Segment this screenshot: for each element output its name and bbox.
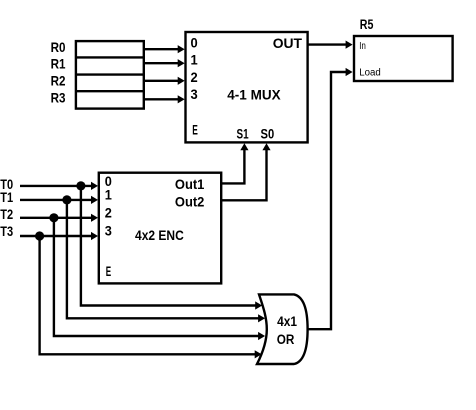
svg-text:E: E — [106, 264, 111, 279]
wire T2 tap to OR input 3 — [54, 218, 265, 340]
svg-text:1: 1 — [105, 188, 113, 203]
4-1 MUX U1 — [186, 32, 308, 142]
svg-text:4x1: 4x1 — [277, 314, 297, 329]
svg-text:1: 1 — [191, 53, 199, 68]
svg-text:OUT: OUT — [273, 35, 303, 51]
junction node on T2 — [49, 213, 58, 222]
svg-text:S0: S0 — [261, 126, 275, 141]
encoder 4x2 ENC — [99, 173, 221, 284]
svg-text:4x2 ENC: 4x2 ENC — [135, 227, 184, 243]
junction node on T1 — [62, 195, 71, 204]
svg-text:0: 0 — [191, 36, 198, 51]
wire ENC Out1 to MUX S1 — [221, 143, 248, 183]
svg-text:R1: R1 — [51, 56, 66, 72]
svg-text:OR: OR — [277, 332, 295, 347]
svg-text:R2: R2 — [51, 73, 66, 89]
svg-text:3: 3 — [191, 87, 199, 102]
wire T0 to ENC input 0 — [20, 182, 98, 190]
register R5 — [354, 36, 453, 81]
wire T2 to ENC input 2 — [20, 214, 98, 222]
svg-text:T2: T2 — [0, 207, 13, 222]
svg-text:R0: R0 — [51, 39, 66, 55]
wire R2 to MUX input 2 — [144, 77, 185, 85]
OR gate 4x1 — [257, 294, 308, 364]
register file stack R0-R3 — [76, 41, 144, 109]
junction node on T0 — [76, 181, 85, 190]
svg-text:In: In — [359, 41, 366, 52]
wire T1 to ENC input 1 — [20, 196, 98, 204]
svg-text:Out1: Out1 — [175, 177, 205, 192]
svg-text:3: 3 — [105, 223, 113, 238]
wire T3 to ENC input 3 — [20, 232, 98, 240]
wire MUX OUT to R5 In — [308, 41, 353, 49]
svg-text:E: E — [192, 123, 198, 138]
svg-text:4-1 MUX: 4-1 MUX — [227, 87, 281, 103]
wire T3 tap to OR input 4 — [40, 236, 262, 358]
wire T0 tap to OR input 1 — [81, 186, 262, 310]
svg-text:Out2: Out2 — [175, 195, 205, 210]
svg-text:T1: T1 — [0, 190, 13, 205]
wire R3 to MUX input 3 — [144, 95, 185, 103]
svg-text:Load: Load — [359, 68, 381, 79]
svg-text:R5: R5 — [360, 17, 374, 32]
svg-text:2: 2 — [191, 70, 198, 85]
svg-text:2: 2 — [105, 205, 112, 220]
svg-text:R3: R3 — [51, 90, 66, 106]
wire R1 to MUX input 1 — [144, 59, 185, 67]
wire R0 to MUX input 0 — [144, 45, 185, 53]
svg-text:T3: T3 — [0, 224, 13, 239]
svg-text:S1: S1 — [237, 126, 249, 141]
wire ENC Out2 to MUX S0 — [221, 143, 270, 200]
wire OR output to R5 Load — [308, 68, 353, 329]
wire T1 tap to OR input 2 — [67, 200, 265, 323]
junction node on T3 — [35, 231, 44, 240]
